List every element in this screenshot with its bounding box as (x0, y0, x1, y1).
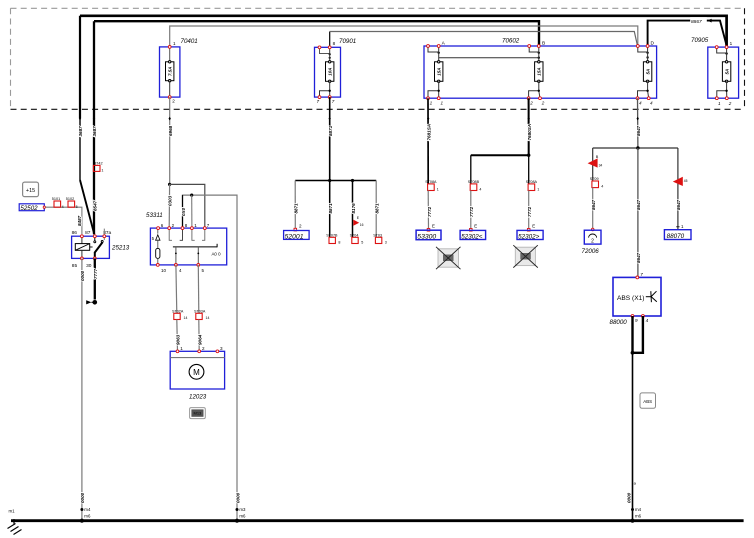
svg-text:8547: 8547 (92, 200, 97, 211)
svg-text:B: B (596, 155, 599, 159)
connector ST07B (329, 237, 335, 243)
connector 5102 (68, 201, 75, 207)
wire 8647 to ABS pin 7 (637, 148, 639, 277)
svg-text:8871: 8871 (328, 125, 333, 136)
svg-text:2: 2 (299, 223, 302, 228)
svg-text:m6: m6 (84, 514, 91, 519)
svg-text:14: 14 (206, 316, 210, 320)
svg-text:ST08A: ST08A (425, 180, 437, 184)
svg-text:ST03A: ST03A (194, 309, 206, 313)
svg-text:16: 16 (360, 223, 364, 227)
svg-text:15A: 15A (437, 67, 442, 75)
svg-text:E: E (532, 223, 535, 228)
pictogram ABS (640, 393, 656, 408)
svg-text:9: 9 (635, 318, 638, 323)
8647 distribution (593, 147, 678, 149)
svg-text:m4: m4 (84, 507, 91, 512)
wire 7680SA from 70602/2 (528, 98, 530, 155)
svg-text:70602: 70602 (502, 38, 520, 45)
svg-text:2: 2 (529, 101, 533, 106)
svg-text:m1: m1 (9, 509, 16, 514)
connector ST09 (592, 181, 599, 188)
svg-text:4: 4 (62, 205, 64, 209)
svg-text:70901: 70901 (339, 38, 356, 45)
svg-text:8647: 8647 (636, 252, 641, 263)
svg-text:0000: 0000 (626, 492, 631, 503)
switch 53311 (146, 212, 227, 273)
svg-text:0000: 0000 (80, 270, 85, 281)
motor 12023 (170, 346, 224, 400)
relay 25213 (72, 229, 130, 269)
pictogram (crossed) under 53300 (438, 249, 459, 267)
component 52302 (right) (517, 230, 543, 239)
component 72006 (591, 228, 594, 231)
pictogram (crossed) under 52302R (515, 247, 535, 265)
svg-text:8647: 8647 (591, 199, 596, 210)
svg-text:m6: m6 (239, 514, 246, 519)
svg-text:7: 7 (640, 272, 643, 277)
svg-text:4: 4 (601, 185, 603, 189)
wire 53311 pin5 to motor (9064) (197, 265, 200, 313)
svg-text:8871: 8871 (328, 203, 333, 214)
svg-text:1: 1 (180, 346, 183, 351)
svg-text:9064: 9064 (198, 334, 203, 345)
junction node on 6968 (168, 183, 171, 186)
wire 7772 to 52302R (528, 191, 530, 229)
component 52302 (left) (460, 230, 486, 239)
wire 7681SA from 70602/1 (427, 98, 429, 184)
8871 distribution bus (295, 180, 376, 182)
svg-text:m4: m4 (635, 507, 642, 512)
svg-text:m6: m6 (635, 514, 642, 519)
svg-text:4: 4 (479, 187, 481, 191)
svg-text:D: D (651, 41, 655, 47)
svg-text:2: 2 (202, 346, 205, 351)
svg-text:8867: 8867 (691, 19, 702, 25)
svg-text:72006: 72006 (582, 248, 600, 255)
svg-text:7.5A: 7.5A (168, 66, 173, 76)
wire 3687 (left battery feed 1) (79, 16, 81, 118)
svg-text:9063: 9063 (176, 334, 181, 345)
ground bus (11, 519, 744, 522)
svg-text:86: 86 (72, 230, 78, 236)
svg-text:10A: 10A (328, 67, 333, 75)
svg-text:ST08A: ST08A (526, 180, 538, 184)
connector 8742 (93, 165, 100, 171)
svg-text:10: 10 (161, 268, 167, 273)
svg-text:52502: 52502 (20, 205, 38, 212)
svg-text:87: 87 (85, 230, 91, 236)
svg-text:45: 45 (684, 179, 688, 183)
wire 7772 to 52302L (470, 191, 472, 229)
svg-text:12023: 12023 (189, 393, 207, 400)
svg-text:5: 5 (361, 240, 363, 244)
svg-text:+15: +15 (26, 188, 35, 194)
wire 8867 branch (70602 pin 9 to 70905 pin 1) (648, 21, 727, 47)
svg-text:14: 14 (184, 316, 188, 320)
svg-text:5A: 5A (725, 69, 730, 75)
svg-text:52001: 52001 (285, 234, 304, 241)
svg-text:1: 1 (173, 41, 176, 46)
svg-text:0000: 0000 (235, 492, 240, 503)
svg-text:1: 1 (101, 169, 103, 173)
fuse 70901 (315, 38, 357, 104)
svg-text:70401: 70401 (181, 38, 198, 45)
connector 5101 (54, 201, 61, 207)
wire 8871 (main) (329, 97, 331, 180)
wire 0X0 net (pin 8 / pin 1 to ground) (183, 195, 238, 521)
svg-text:8871: 8871 (375, 203, 380, 214)
wire gray bus from 70401 to 70602 pin D (170, 26, 638, 47)
svg-text:30: 30 (86, 263, 92, 269)
svg-text:0000: 0000 (80, 492, 85, 503)
svg-text:53300: 53300 (417, 234, 436, 241)
connector ST03A (196, 313, 202, 319)
component 52502 (19, 204, 44, 211)
svg-text:ST08B: ST08B (468, 180, 480, 184)
svg-text:7772: 7772 (427, 206, 432, 217)
svg-text:E: E (432, 223, 435, 228)
svg-text:2: 2 (591, 239, 594, 245)
svg-text:8647: 8647 (636, 125, 641, 136)
svg-text:ST02A: ST02A (172, 309, 184, 313)
component 53300 (416, 230, 441, 240)
svg-text:2: 2 (728, 101, 732, 106)
wire bus 30 feed (thick, to 70905) (80, 16, 727, 47)
svg-text:4: 4 (646, 318, 649, 323)
svg-text:52302>: 52302> (518, 234, 540, 241)
fuse box boundary (dashed) (11, 7, 745, 9)
svg-text:A0 0: A0 0 (212, 252, 222, 257)
svg-text:1: 1 (537, 187, 539, 191)
svg-text:85: 85 (72, 263, 78, 269)
svg-text:5101: 5101 (52, 197, 60, 201)
connector ST08A (right) (528, 184, 535, 191)
branch to 88070 (677, 148, 679, 230)
svg-text:5102: 5102 (66, 197, 74, 201)
wire 8176 (352, 181, 354, 238)
connector ST03 (375, 237, 381, 243)
wire 8647 from 70602/4 (637, 98, 639, 148)
svg-text:7772: 7772 (527, 206, 532, 217)
wire 8871 to ST03 (375, 181, 377, 238)
svg-text:8: 8 (333, 41, 336, 46)
wire 0303 to 53311 pin 2 (168, 184, 170, 228)
svg-text:m3: m3 (239, 507, 246, 512)
wire 7777 relay 30 (to +30) (94, 258, 96, 299)
svg-text:34: 34 (599, 164, 603, 168)
connector ST02A (174, 313, 180, 319)
connector ST04 (352, 237, 358, 243)
svg-text:ST04: ST04 (350, 233, 359, 237)
wire 6968 (169, 97, 171, 184)
wire to 53311 pin 7 (170, 184, 205, 228)
svg-text:4: 4 (639, 101, 642, 106)
fuse 70905 (691, 37, 739, 106)
svg-text:3687: 3687 (92, 126, 97, 137)
connector ST08A (left) (428, 184, 435, 191)
ABS control unit 88000 (610, 272, 662, 326)
svg-text:4: 4 (650, 101, 653, 106)
connector ST08B (470, 184, 477, 191)
svg-text:52302<: 52302< (461, 234, 483, 241)
wire 8871 to ST07B (329, 181, 331, 238)
wire 0000 relay 85 to ground (81, 258, 83, 520)
svg-text:6968: 6968 (168, 125, 173, 136)
svg-text:88000: 88000 (610, 319, 628, 326)
svg-text:ST07B: ST07B (326, 233, 338, 237)
svg-text:M: M (193, 368, 200, 377)
fuse block 70602 (424, 38, 657, 106)
svg-text:3: 3 (220, 346, 223, 351)
svg-text:8647: 8647 (636, 199, 641, 210)
svg-text:8487: 8487 (77, 215, 82, 226)
wire 53311 pin4 to motor (9063) (175, 265, 178, 313)
ABS ground wires (631, 316, 633, 353)
fuse 70401 (160, 38, 198, 103)
svg-text:7: 7 (332, 99, 335, 104)
ground node m4/m6 left (80, 508, 83, 511)
svg-text:1: 1 (430, 101, 433, 106)
svg-text:0X0: 0X0 (181, 207, 186, 216)
svg-text:8647: 8647 (676, 199, 681, 210)
component 52001 (294, 228, 297, 231)
svg-text:B: B (542, 41, 545, 47)
wire gray bus from 70901 pin 8 to 70602 pin D (329, 32, 331, 48)
label 8867 with arrow (690, 17, 707, 24)
svg-text:70905: 70905 (691, 37, 709, 44)
wire 7772 to 53300 (427, 191, 429, 229)
svg-text:1: 1 (437, 187, 439, 191)
branch to ST08B (471, 154, 529, 156)
svg-text:M13: M13 (194, 411, 203, 416)
svg-text:7681SA: 7681SA (427, 124, 432, 141)
svg-text:1: 1 (441, 101, 444, 106)
svg-text:7680SA: 7680SA (527, 124, 532, 141)
svg-text:ABS (X1): ABS (X1) (617, 295, 644, 302)
box +15 (23, 182, 39, 197)
svg-text:7777: 7777 (93, 268, 98, 279)
svg-text:3687: 3687 (78, 126, 83, 137)
svg-text:ST03: ST03 (373, 233, 382, 237)
svg-text:ST09: ST09 (590, 177, 599, 181)
svg-text:1: 1 (730, 41, 733, 46)
svg-text:88070: 88070 (667, 233, 685, 240)
svg-text:ABS: ABS (643, 399, 652, 404)
ground node m3/m6 middle (236, 508, 239, 511)
svg-text:7772: 7772 (469, 206, 474, 217)
svg-text:5: 5 (76, 205, 78, 209)
svg-text:7: 7 (317, 99, 320, 104)
svg-text:1: 1 (718, 101, 721, 106)
svg-text:8871: 8871 (294, 203, 299, 214)
svg-text:2: 2 (541, 101, 545, 106)
wire 8871 to 52001 (294, 181, 296, 229)
wire 3687 (left battery feed 2, thick) (93, 21, 95, 234)
pictogram M13 (190, 408, 206, 419)
svg-text:3: 3 (385, 240, 387, 244)
splice arrow on 8176 (353, 220, 359, 226)
svg-text:15A: 15A (537, 67, 542, 75)
svg-text:8: 8 (338, 240, 340, 244)
svg-text:53311: 53311 (146, 212, 163, 219)
svg-text:E: E (474, 223, 477, 228)
svg-text:8176: 8176 (351, 203, 356, 214)
component 88070 (664, 230, 691, 240)
svg-text:0303: 0303 (168, 195, 173, 206)
svg-text:5A: 5A (646, 69, 651, 75)
svg-text:25213: 25213 (111, 245, 130, 252)
svg-text:2: 2 (172, 99, 175, 104)
wire bus to 70602 pin B (thick) (94, 21, 539, 47)
svg-text:8742: 8742 (94, 161, 102, 165)
wire 52502 to relay 86 (46, 207, 82, 234)
branch to 72006 (592, 148, 594, 181)
